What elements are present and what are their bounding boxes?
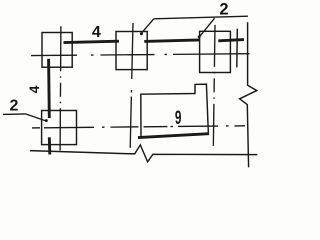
wire (right outer wall line with break symbol) — [240, 22, 257, 167]
wall segment lower (thick vertical wall through K4) — [48, 137, 51, 154]
column K2 (top-middle column square) — [116, 32, 147, 70]
leader for label 2 left (shelf) — [3, 113, 26, 116]
wire (long bottom line with break symbol) — [30, 145, 257, 162]
beam 1 (thick crossbar between K1 and K2) — [64, 41, 120, 42]
leader diagonal to wall — [26, 114, 46, 121]
column K1 (top-left column square) — [42, 33, 72, 68]
slab 9 (panel outline with notch) — [141, 84, 209, 137]
leader dot at K3 — [198, 35, 201, 38]
leader dot at K2 — [140, 32, 143, 35]
svg-text:9: 9 — [175, 109, 182, 129]
beam 3 (thick crossbar right of K3) — [218, 40, 244, 41]
beam 2 (thick crossbar between K2 and K3) — [144, 40, 200, 42]
leader diagonal to K3 — [199, 18, 215, 37]
leader diagonal to K2 — [141, 19, 154, 34]
svg-text:4: 4 — [26, 85, 42, 93]
svg-text:2: 2 — [219, 0, 228, 18]
node axis 2 (middle vertical dash-dot grid line) — [130, 23, 133, 148]
column K4 (bottom-left column square) — [42, 111, 77, 145]
node axis 1 (left vertical dash-dot grid line) — [59, 26, 62, 150]
leader for label 2 top (shelf) — [154, 16, 248, 19]
wall segment upper (thick vertical wall below K1) — [47, 59, 51, 118]
node axis B (bottom horizontal dash-dot axis) — [32, 126, 245, 128]
column K3 (top-right column square) — [200, 31, 231, 72]
leader dot at wall — [45, 119, 48, 122]
wall edge line (right outer wall, upper short vertical) — [236, 29, 239, 68]
svg-text:2: 2 — [10, 98, 19, 115]
svg-text:4: 4 — [92, 24, 101, 41]
node axis 3 (right vertical dash-dot grid line) — [213, 25, 215, 149]
node axis A (top horizontal dash-dot axis) — [31, 54, 250, 56]
slab 9 bottom thick edge — [138, 134, 209, 138]
